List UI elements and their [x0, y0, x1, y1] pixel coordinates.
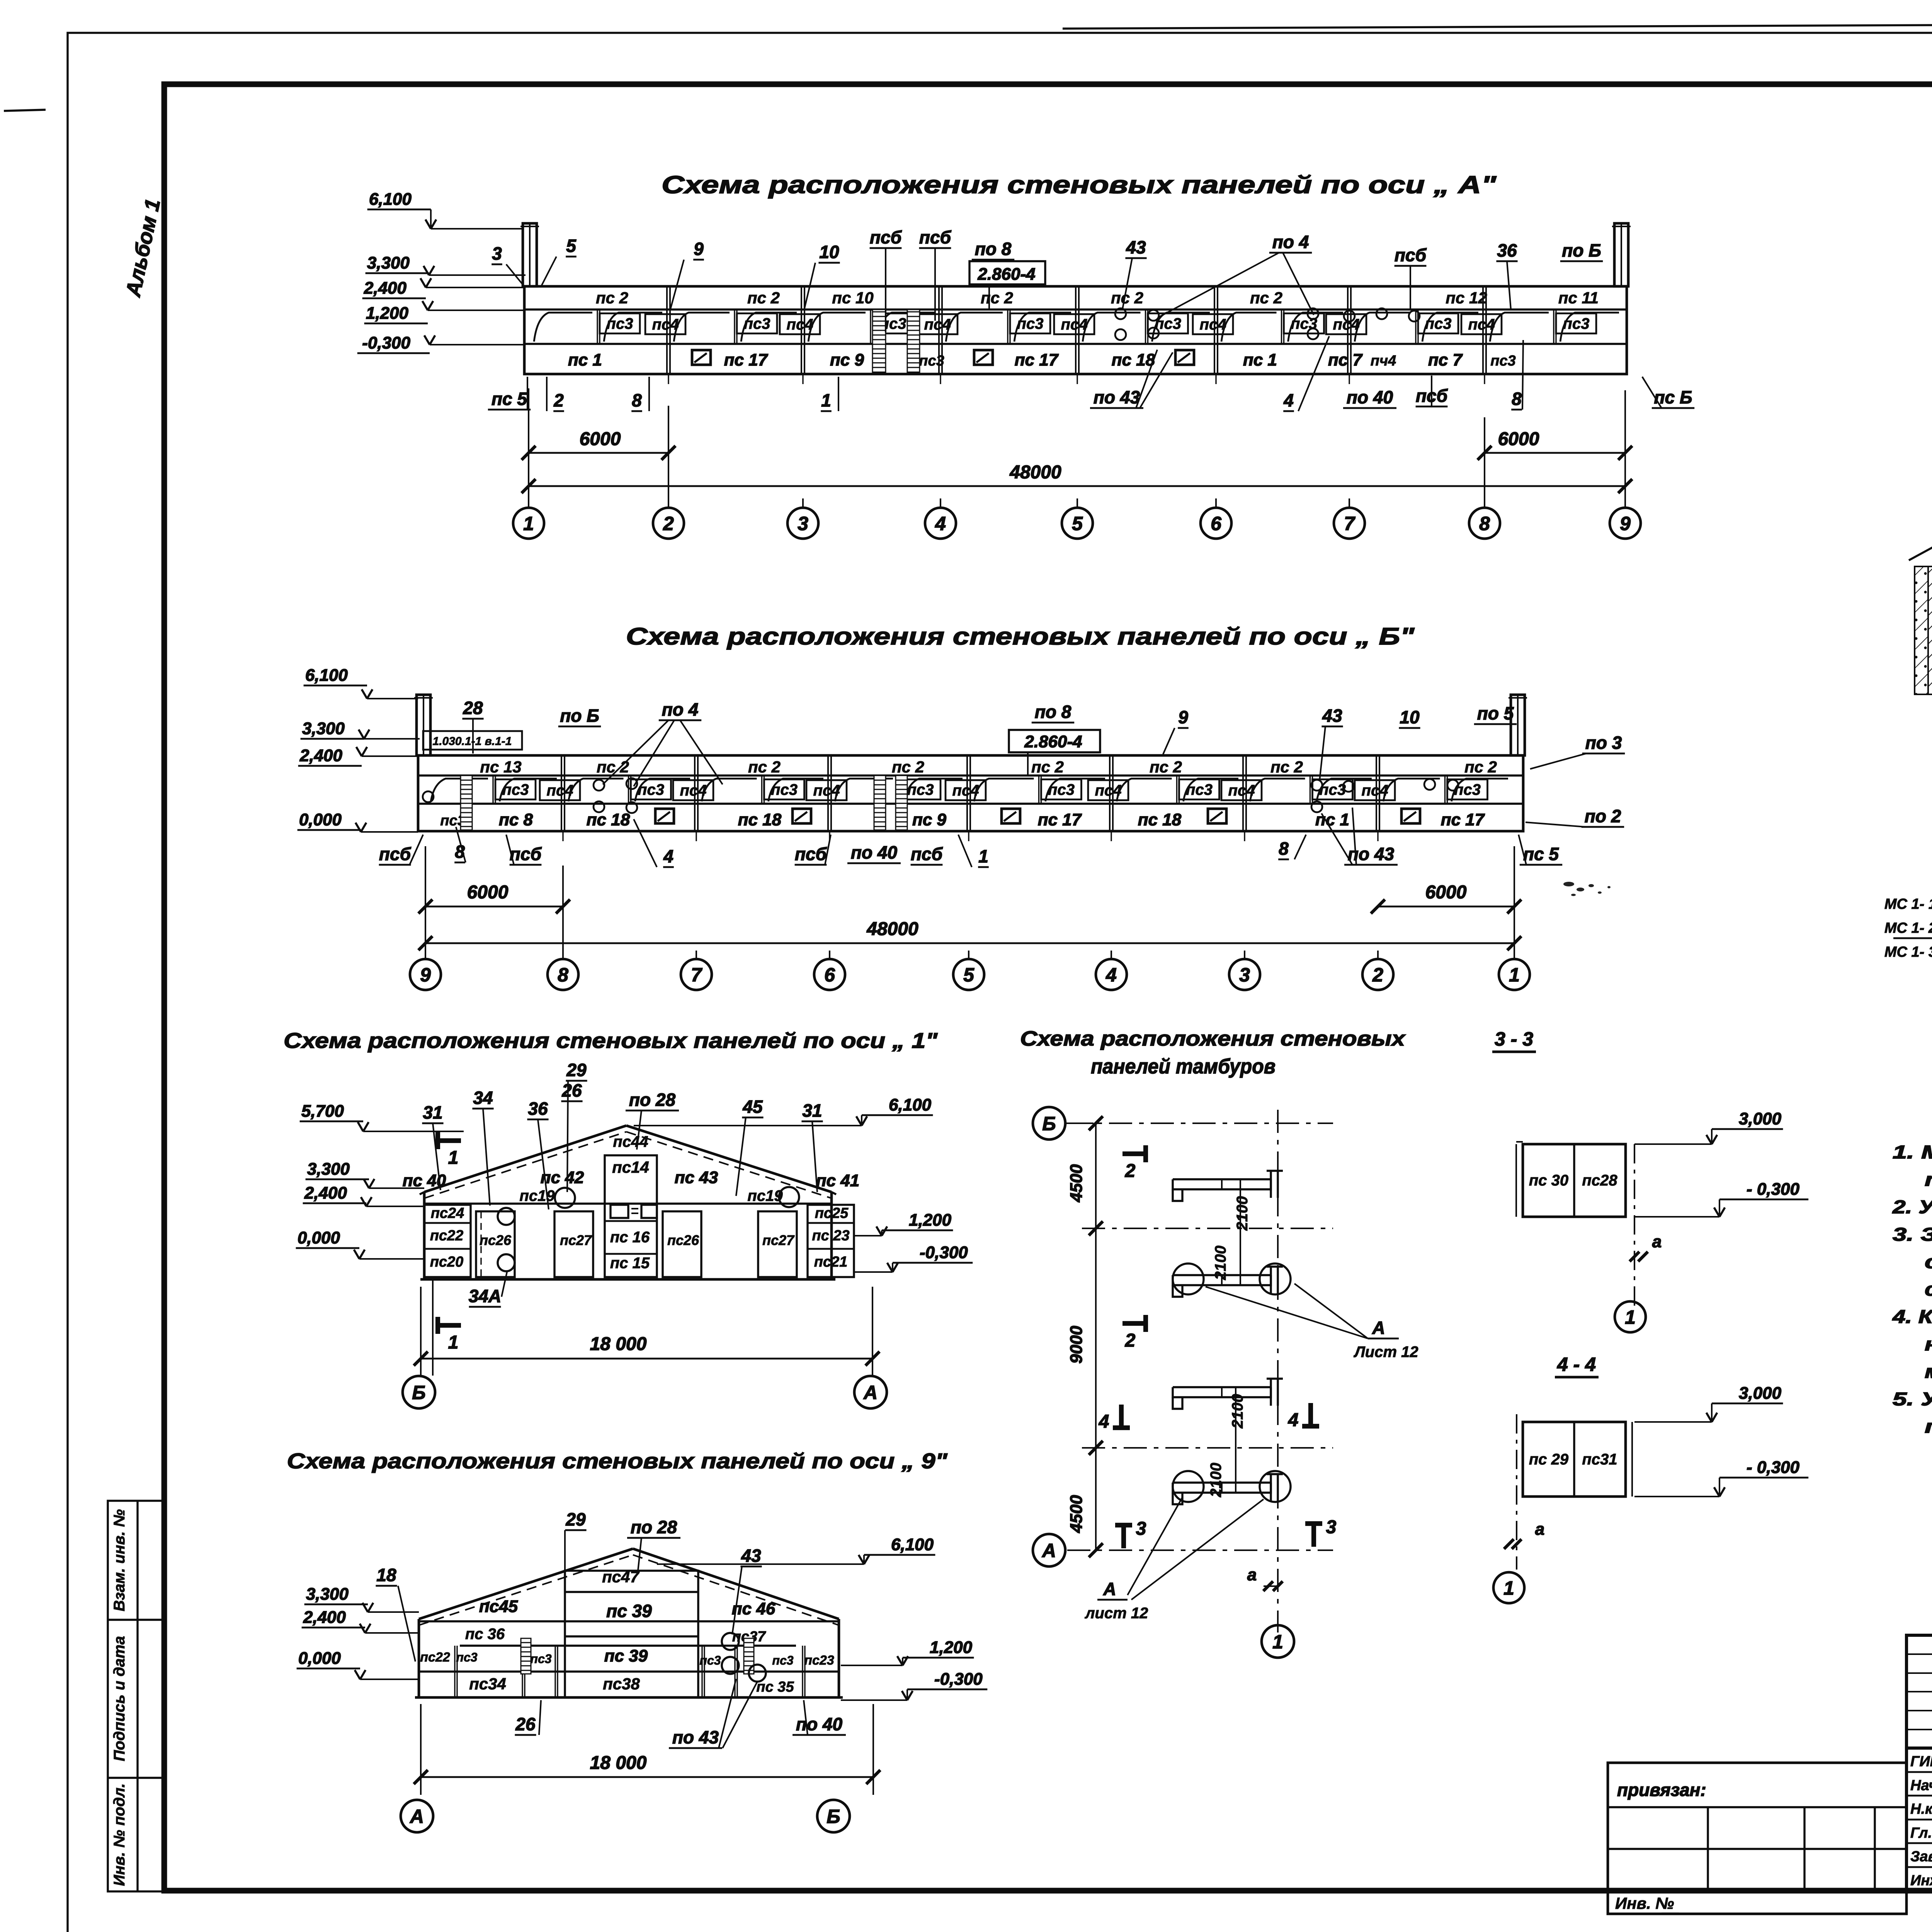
svg-text:Б: Б — [827, 1806, 840, 1827]
svg-text:-0,300: -0,300 — [920, 1243, 968, 1262]
svg-text:пс4: пс4 — [1468, 316, 1495, 333]
svg-text:3,300: 3,300 — [367, 253, 410, 272]
svg-text:2.860-4: 2.860-4 — [977, 265, 1035, 284]
svg-text:пс28: пс28 — [1582, 1172, 1617, 1189]
svg-text:3: 3 — [1239, 964, 1250, 986]
svg-text:5: 5 — [963, 964, 975, 986]
svg-text:пс 1: пс 1 — [568, 350, 602, 369]
svg-text:пс 2: пс 2 — [748, 758, 781, 776]
svg-text:пс22: пс22 — [430, 1228, 464, 1244]
svg-text:18: 18 — [376, 1565, 396, 1585]
gable 9 vertical seams — [454, 1646, 455, 1697]
svg-text:пс 2: пс 2 — [596, 289, 628, 307]
tambour grid circle A — [1033, 1534, 1065, 1566]
svg-text:псб: псб — [379, 844, 412, 864]
middle band panel shapes — [597, 310, 598, 344]
svg-text:пс 2: пс 2 — [1464, 758, 1497, 776]
gable 1 grid circle B — [403, 1376, 435, 1408]
svg-text:3 - 3: 3 - 3 — [1495, 1028, 1533, 1050]
gable 1 roof — [424, 1126, 626, 1192]
svg-text:4: 4 — [1283, 390, 1294, 410]
svg-text:28: 28 — [463, 698, 483, 718]
svg-text:Инв. № подл.: Инв. № подл. — [111, 1783, 128, 1886]
svg-text:требованиями СНиП 3.03.01- 8: требованиями СНиП 3.03.01- 87 и указания… — [1925, 1170, 1932, 1190]
svg-text:пс 18: пс 18 — [1112, 350, 1155, 369]
svg-text:по 28: по 28 — [629, 1090, 676, 1110]
svg-text:пс4: пс4 — [1333, 316, 1360, 333]
svg-text:8: 8 — [1512, 389, 1522, 409]
svg-text:пс 16: пс 16 — [610, 1229, 650, 1246]
svg-text:2.860-4: 2.860-4 — [1024, 732, 1082, 751]
tambour axis A horizontal — [1067, 1549, 1333, 1551]
svg-text:пс 41: пс 41 — [816, 1171, 860, 1190]
svg-text:пс24: пс24 — [431, 1205, 464, 1221]
svg-text:пс3: пс3 — [1563, 315, 1590, 332]
wall outline — [524, 286, 1627, 374]
svg-text:пс3: пс3 — [530, 1652, 551, 1666]
svg-text:пч4: пч4 — [1371, 353, 1396, 369]
svg-text:пс 46: пс 46 — [732, 1599, 776, 1618]
paper scan streak top — [1063, 23, 1932, 29]
svg-text:8: 8 — [1479, 513, 1490, 534]
svg-text:9: 9 — [420, 964, 431, 986]
svg-text:панелей над ними.: панелей над ними. — [1925, 1417, 1932, 1437]
tambour intermediate axes — [1082, 1228, 1333, 1229]
svg-text:10: 10 — [819, 242, 839, 262]
svg-text:пс3: пс3 — [502, 781, 529, 798]
svg-text:пс27: пс27 — [762, 1232, 795, 1248]
svg-text:по 4: по 4 — [662, 699, 699, 719]
svg-text:пс 2: пс 2 — [1111, 289, 1143, 307]
svg-text:6000: 6000 — [1498, 429, 1539, 449]
svg-text:по 2: по 2 — [1585, 806, 1621, 826]
svg-text:4: 4 — [935, 513, 946, 534]
svg-text:пс3: пс3 — [607, 315, 633, 332]
svg-text:а: а — [1652, 1232, 1662, 1251]
svg-text:пс 1: пс 1 — [1243, 350, 1277, 369]
svg-text:29: 29 — [565, 1509, 586, 1529]
svg-text:3,300: 3,300 — [307, 1160, 350, 1179]
svg-text:по 28: по 28 — [631, 1517, 677, 1537]
svg-text:пс 8: пс 8 — [499, 810, 533, 829]
svg-text:9: 9 — [694, 239, 704, 259]
middle band panel shapes — [492, 776, 493, 804]
svg-text:пс4: пс4 — [1095, 782, 1122, 799]
tambour grid circle 1 — [1262, 1625, 1294, 1658]
svg-text:0,000: 0,000 — [298, 1649, 341, 1668]
svg-text:3: 3 — [1136, 1519, 1146, 1539]
svg-text:45: 45 — [742, 1097, 763, 1117]
gable 1 ps27 column — [554, 1211, 593, 1277]
svg-text:Подпись и дата: Подпись и дата — [111, 1636, 128, 1761]
svg-text:пс4: пс4 — [652, 316, 679, 333]
svg-text:8: 8 — [632, 390, 642, 410]
svg-text:пс3: пс3 — [907, 781, 934, 798]
svg-text:пс 29: пс 29 — [1529, 1451, 1569, 1468]
left margin table — [108, 1501, 165, 1891]
grid circles strip A — [528, 498, 529, 508]
svg-text:26: 26 — [515, 1714, 536, 1734]
svg-text:пс 7: пс 7 — [1428, 350, 1463, 369]
svg-text:псб: псб — [870, 227, 902, 247]
svg-text:пс21: пс21 — [814, 1254, 848, 1270]
svg-text:4 - 4: 4 - 4 — [1557, 1354, 1596, 1375]
svg-text:43: 43 — [741, 1546, 761, 1566]
svg-text:4500: 4500 — [1067, 1164, 1086, 1202]
svg-text:МС 1- 3: МС 1- 3 — [1884, 944, 1932, 960]
tambour axis vertical — [1277, 1110, 1279, 1633]
svg-text:пс4: пс4 — [547, 782, 573, 799]
svg-text:5. Участки кирпичной клад: 5. Участки кирпичной кладки выполнять до… — [1893, 1389, 1932, 1410]
svg-text:пс26: пс26 — [667, 1232, 699, 1248]
section 4-4 circle 1 — [1493, 1572, 1524, 1603]
svg-text:1: 1 — [1625, 1306, 1636, 1328]
svg-text:пс 2: пс 2 — [1031, 758, 1064, 776]
svg-text:31: 31 — [423, 1102, 442, 1122]
svg-text:псб: псб — [919, 227, 952, 247]
svg-text:пс38: пс38 — [603, 1675, 640, 1693]
svg-text:Гл.спец.: Гл.спец. — [1910, 1825, 1932, 1841]
tambour dim 2100 chain bottom — [1235, 1387, 1236, 1493]
svg-text:пс 18: пс 18 — [738, 810, 782, 829]
ventilation hatched strips — [872, 310, 886, 373]
svg-text:пс 9: пс 9 — [912, 810, 947, 829]
svg-text:по Б: по Б — [560, 706, 599, 726]
svg-text:1: 1 — [448, 1148, 459, 1168]
svg-text:6: 6 — [1211, 513, 1222, 534]
svg-text:пс 11: пс 11 — [1558, 289, 1599, 307]
svg-text:6: 6 — [824, 964, 835, 986]
svg-text:7: 7 — [1344, 513, 1355, 534]
svg-text:пс 5: пс 5 — [492, 389, 527, 409]
svg-text:2: 2 — [663, 513, 674, 534]
svg-text:1,200: 1,200 — [930, 1638, 973, 1657]
svg-text:стеновыми панелями выполнять: стеновыми панелями выполнять по серии 2.… — [1925, 1252, 1932, 1272]
svg-text:пс26: пс26 — [480, 1232, 512, 1248]
svg-text:2100: 2100 — [1212, 1246, 1229, 1281]
svg-text:по 40: по 40 — [796, 1714, 843, 1734]
tambour dim 2100 chain top — [1240, 1179, 1241, 1285]
parapet post right — [1614, 223, 1628, 286]
tambour vertical dim line — [1095, 1123, 1097, 1550]
svg-text:1: 1 — [448, 1332, 459, 1353]
svg-text:2,400: 2,400 — [299, 746, 343, 765]
svg-text:по 43: по 43 — [672, 1727, 719, 1747]
gable 9 dimension 18000 — [421, 1776, 873, 1778]
svg-text:29: 29 — [566, 1060, 587, 1080]
svg-text:6000: 6000 — [580, 429, 621, 449]
svg-text:9: 9 — [1178, 707, 1188, 727]
svg-text:5: 5 — [566, 236, 577, 256]
svg-text:пс4: пс4 — [680, 782, 707, 799]
svg-text:пс 23: пс 23 — [812, 1228, 849, 1244]
svg-text:пс3: пс3 — [638, 781, 664, 798]
svg-text:по 40: по 40 — [851, 842, 898, 862]
svg-text:18 000: 18 000 — [590, 1753, 647, 1773]
gable 1 center column — [605, 1155, 657, 1277]
svg-text:Н.контр.: Н.контр. — [1910, 1801, 1932, 1817]
gable 9 grid circle A — [401, 1800, 433, 1832]
svg-text:6,100: 6,100 — [891, 1535, 934, 1554]
svg-text:пс3: пс3 — [456, 1650, 477, 1664]
svg-text:1,200: 1,200 — [909, 1211, 952, 1230]
svg-text:пс 43: пс 43 — [675, 1168, 718, 1187]
panel seams at grid lines — [561, 755, 562, 831]
svg-text:пс23: пс23 — [804, 1653, 834, 1668]
gable 1 window icons center — [611, 1205, 628, 1218]
svg-text:пс45: пс45 — [479, 1597, 518, 1616]
svg-text:-0,300: -0,300 — [362, 333, 410, 352]
svg-text:7: 7 — [691, 964, 702, 986]
svg-text:1: 1 — [821, 390, 831, 410]
section 4-4 axis below — [1516, 1414, 1517, 1570]
svg-text:пс14: пс14 — [612, 1158, 649, 1176]
svg-text:пс3: пс3 — [1048, 781, 1075, 798]
svg-text:пс 2: пс 2 — [747, 289, 780, 307]
stain spots — [1563, 882, 1611, 896]
joint circles strip A — [1115, 308, 1126, 319]
parapet post right — [1511, 695, 1525, 755]
svg-text:2: 2 — [1125, 1161, 1136, 1181]
panel seams at grid lines — [666, 286, 668, 374]
gable 1 eave band — [424, 1202, 832, 1204]
svg-text:2,400: 2,400 — [304, 1184, 347, 1202]
svg-text:2,400: 2,400 — [364, 279, 407, 298]
svg-text:а: а — [1535, 1520, 1544, 1539]
svg-text:34А: 34А — [469, 1286, 501, 1306]
svg-text:Инж. I к.: Инж. I к. — [1910, 1872, 1932, 1889]
svg-text:а: а — [1247, 1565, 1257, 1584]
svg-text:2100: 2100 — [1234, 1196, 1251, 1231]
svg-text:4: 4 — [1288, 1410, 1299, 1430]
title block people rows — [1906, 1748, 1932, 1891]
svg-text:36: 36 — [1497, 240, 1517, 260]
detail B corner wall hatched — [1928, 566, 1932, 694]
svg-text:1.030.1-1 в.1-1: 1.030.1-1 в.1-1 — [433, 735, 512, 748]
svg-text:0,000: 0,000 — [298, 1228, 340, 1247]
svg-text:пс 9: пс 9 — [830, 350, 864, 369]
svg-text:4: 4 — [663, 846, 673, 866]
svg-text:пс 39: пс 39 — [604, 1646, 648, 1665]
svg-text:пс3: пс3 — [1490, 353, 1515, 369]
svg-text:пс 13: пс 13 — [480, 758, 521, 776]
gable 9 vent strips — [521, 1638, 531, 1674]
svg-text:1: 1 — [1509, 964, 1520, 986]
svg-text:лист 12: лист 12 — [1085, 1605, 1148, 1622]
svg-text:1,200: 1,200 — [366, 304, 409, 323]
svg-text:3: 3 — [798, 513, 808, 534]
mid band labels ps3 ps4 — [600, 313, 640, 333]
svg-text:- 0,300: - 0,300 — [1747, 1180, 1800, 1199]
ventilation hatched strips — [461, 776, 472, 830]
svg-text:4500: 4500 — [1067, 1495, 1086, 1533]
svg-text:пс3: пс3 — [1291, 315, 1317, 332]
svg-text:псб: псб — [911, 844, 943, 864]
svg-text:привязан:: привязан: — [1617, 1780, 1706, 1800]
svg-text:по 4: по 4 — [1272, 232, 1309, 252]
svg-text:пс3: пс3 — [1319, 781, 1346, 798]
svg-text:пс 1: пс 1 — [1315, 810, 1349, 829]
svg-text:26: 26 — [561, 1080, 582, 1100]
svg-text:Схема расположения стеновых па: Схема расположения стеновых панелей по о… — [626, 623, 1415, 650]
svg-text:пс47: пс47 — [602, 1568, 639, 1586]
svg-text:пс3: пс3 — [919, 353, 944, 369]
svg-text:пс3: пс3 — [772, 1653, 793, 1667]
svg-text:А: А — [409, 1806, 424, 1827]
svg-text:нят из керамзитобетона кла: нят из керамзитобетона класса В 3,5 плот… — [1925, 1334, 1932, 1355]
svg-text:0,000: 0,000 — [299, 810, 342, 829]
gable 1 left panel stack — [424, 1205, 471, 1277]
svg-text:пс 36: пс 36 — [465, 1626, 505, 1643]
svg-text:А: А — [1041, 1540, 1056, 1561]
svg-text:пс 17: пс 17 — [1015, 350, 1059, 369]
svg-text:31: 31 — [802, 1100, 822, 1121]
svg-text:А: А — [1103, 1579, 1116, 1599]
svg-text:6,100: 6,100 — [305, 666, 348, 685]
parapet post left — [417, 695, 430, 755]
svg-text:пс4: пс4 — [952, 782, 979, 799]
svg-text:А: А — [863, 1382, 878, 1403]
svg-text:по 8: по 8 — [975, 239, 1012, 259]
svg-text:пс 30: пс 30 — [1529, 1172, 1568, 1189]
dimension 6000 right strip B — [1378, 906, 1514, 908]
svg-text:1: 1 — [1272, 1631, 1283, 1653]
gable 9 wall outline — [418, 1619, 420, 1697]
svg-text:43: 43 — [1126, 237, 1146, 257]
svg-text:8: 8 — [558, 964, 568, 986]
gable 1 section mark 1 bottom — [438, 1323, 461, 1328]
svg-text:Зав. гр.: Зав. гр. — [1910, 1849, 1932, 1865]
svg-text:18 000: 18 000 — [590, 1334, 647, 1354]
svg-text:псб: псб — [1395, 245, 1427, 265]
svg-text:Схема расположения стеновых па: Схема расположения стеновых панелей по о… — [284, 1028, 938, 1053]
svg-text:Инв. №: Инв. № — [1615, 1894, 1674, 1912]
svg-text:Нач.отд.: Нач.отд. — [1910, 1777, 1932, 1794]
dimension 6000 right strip A — [1485, 452, 1625, 454]
svg-text:8: 8 — [1279, 838, 1289, 859]
svg-text:-0,300: -0,300 — [934, 1670, 983, 1689]
svg-text:по Б: по Б — [1562, 240, 1601, 260]
svg-text:2100: 2100 — [1207, 1463, 1225, 1498]
svg-text:псб: псб — [795, 844, 827, 864]
title block small grid — [1906, 1635, 1932, 1748]
svg-text:3,000: 3,000 — [1739, 1109, 1782, 1128]
gable 9 grid circle B — [817, 1800, 850, 1832]
gable 1 ps26 column left — [476, 1211, 515, 1277]
paper edge dash top left — [4, 110, 46, 111]
svg-text:пс 2: пс 2 — [1150, 758, 1182, 776]
tambour section marks 3 — [1121, 1525, 1126, 1548]
svg-text:по 3: по 3 — [1585, 733, 1622, 753]
gable 1 joint circles — [555, 1188, 575, 1208]
svg-text:пс 17: пс 17 — [724, 350, 769, 369]
svg-text:А: А — [1372, 1318, 1385, 1338]
svg-text:пс 2: пс 2 — [597, 758, 629, 776]
svg-text:пс 15: пс 15 — [610, 1255, 650, 1272]
callout series box strip B — [423, 731, 522, 750]
svg-text:пс 2: пс 2 — [981, 289, 1013, 307]
svg-text:МС 1- 1: МС 1- 1 — [1884, 896, 1932, 912]
mid band labels ps3 ps4 — [495, 779, 536, 799]
gable 9 center big panel — [565, 1571, 698, 1697]
foundation seam stubs below wall — [668, 374, 669, 384]
gable 1 dimension 18000 — [421, 1358, 872, 1360]
svg-text:2: 2 — [1372, 964, 1383, 986]
svg-text:2,400: 2,400 — [303, 1608, 346, 1627]
parapet post left — [523, 223, 537, 286]
svg-text:пс44: пс44 — [613, 1133, 648, 1150]
svg-text:2. Узлы, кроме оговоренных,: 2. Узлы, кроме оговоренных, приняты по с… — [1892, 1197, 1932, 1218]
svg-text:Б: Б — [1042, 1113, 1056, 1134]
foundation seam stubs below wall — [562, 831, 563, 841]
svg-text:1: 1 — [978, 846, 988, 866]
svg-text:соответствии с документами: соответствии с документами 2. 830 -3, 1-… — [1925, 1279, 1932, 1300]
gable 1 section mark 1 top — [438, 1138, 461, 1143]
svg-text:пс 18: пс 18 — [587, 810, 630, 829]
gable 9 horizontal rows — [460, 1645, 796, 1646]
svg-text:Схема расположения стеновых па: Схема расположения стеновых панелей по о… — [662, 171, 1497, 199]
svg-text:пс4: пс4 — [787, 316, 813, 333]
svg-text:Схема расположения стеновых па: Схема расположения стеновых панелей по о… — [287, 1449, 948, 1473]
svg-text:пс3: пс3 — [771, 781, 798, 798]
svg-text:4. Конструктивно - теплоизоля: 4. Конструктивно - теплоизоляционный сло… — [1892, 1307, 1932, 1327]
svg-text:пс 7: пс 7 — [1328, 350, 1363, 369]
svg-text:пс4: пс4 — [813, 782, 840, 799]
svg-text:5: 5 — [1072, 513, 1083, 534]
svg-text:пс4: пс4 — [1228, 782, 1255, 799]
window icon squares strip A — [692, 350, 711, 365]
svg-text:- 0,300: - 0,300 — [1747, 1458, 1800, 1477]
gable 1 right panel stack — [808, 1205, 854, 1277]
svg-text:по 40: по 40 — [1347, 387, 1393, 407]
svg-text:пс4: пс4 — [1200, 316, 1226, 333]
svg-text:пс 2: пс 2 — [892, 758, 924, 776]
svg-text:9000: 9000 — [1067, 1326, 1086, 1364]
svg-text:пс27: пс27 — [560, 1232, 592, 1248]
svg-text:36: 36 — [528, 1099, 548, 1119]
svg-text:по 43: по 43 — [1094, 387, 1140, 407]
svg-text:3,300: 3,300 — [302, 719, 345, 738]
joint circles strip B — [594, 780, 604, 791]
svg-text:пс 18: пс 18 — [1138, 810, 1182, 829]
svg-text:пс3: пс3 — [699, 1653, 721, 1667]
svg-text:48000: 48000 — [866, 919, 918, 939]
svg-text:пс3: пс3 — [1186, 781, 1213, 798]
svg-text:4: 4 — [1099, 1412, 1109, 1432]
section 3-3 panel box — [1523, 1144, 1626, 1217]
svg-text:6000: 6000 — [467, 882, 509, 903]
gable 1 ps26b column — [663, 1211, 701, 1277]
tambour axis B horizontal — [1067, 1122, 1333, 1124]
svg-text:пс 10: пс 10 — [832, 289, 873, 307]
svg-text:пс 2: пс 2 — [1270, 758, 1303, 776]
svg-text:34: 34 — [473, 1088, 493, 1108]
svg-text:3,300: 3,300 — [306, 1585, 349, 1604]
section 3-3 circle 1 — [1615, 1301, 1646, 1332]
section 4-4 panel box — [1523, 1422, 1626, 1497]
svg-text:пс 12: пс 12 — [1446, 289, 1487, 307]
svg-text:1. Монтаж стеновых панелей: 1. Монтаж стеновых панелей выполнять в с… — [1893, 1142, 1932, 1163]
svg-text:МС 1- 2: МС 1- 2 — [1884, 920, 1932, 936]
dimension 6000 left strip B — [425, 906, 563, 908]
svg-text:пс 17: пс 17 — [1441, 810, 1485, 829]
svg-text:пс31: пс31 — [1582, 1451, 1617, 1468]
svg-text:2: 2 — [1125, 1330, 1136, 1351]
svg-text:пс4: пс4 — [924, 316, 951, 333]
tambour section marks 2 — [1122, 1151, 1146, 1156]
svg-text:пс4: пс4 — [1362, 782, 1388, 799]
svg-text:пс 5: пс 5 — [1523, 844, 1559, 864]
